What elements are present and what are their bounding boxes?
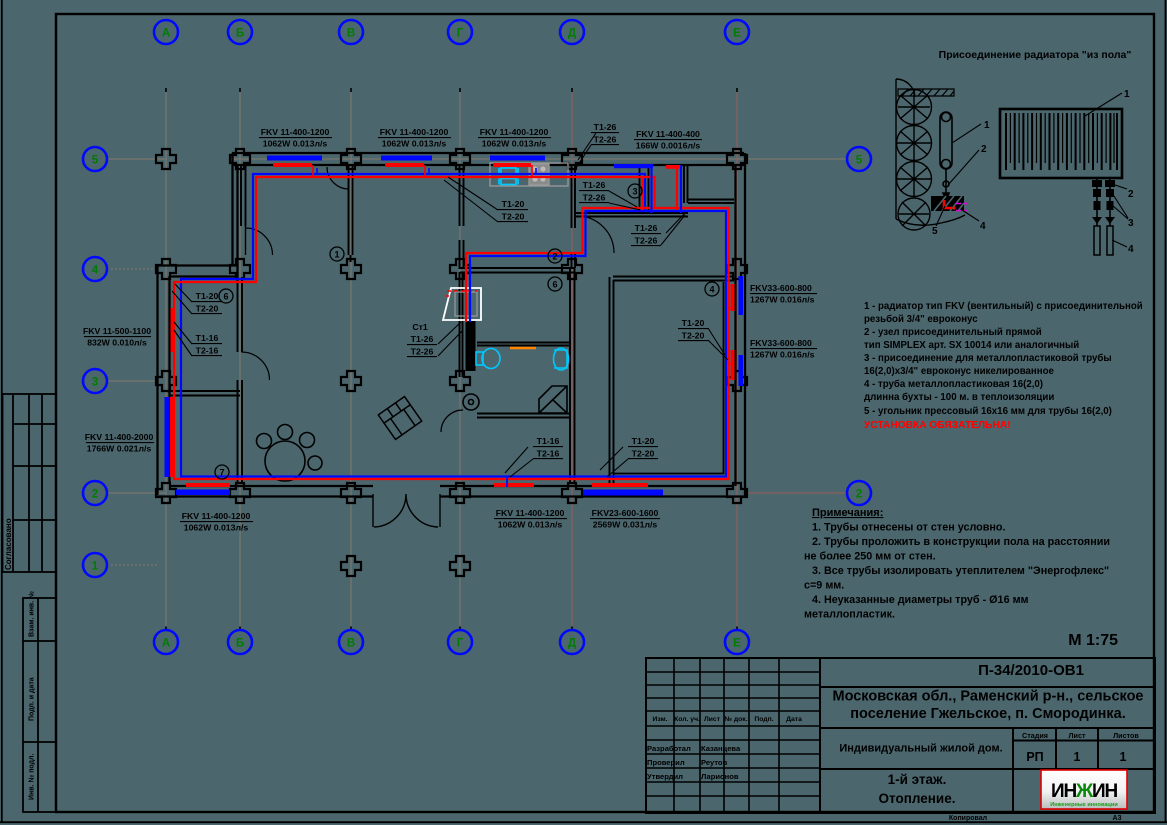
svg-text:5: 5: [932, 226, 938, 237]
radiator R11 stub: [728, 363, 734, 365]
svg-text:А: А: [162, 638, 170, 650]
radiator R5 left red: [171, 308, 176, 352]
axis circle 2 right: [847, 481, 871, 505]
wall bathroom right: [570, 268, 575, 484]
radiator R3 stubs: [531, 165, 533, 176]
wall bathroom top: [460, 268, 575, 273]
label FKV bottom2: [496, 508, 565, 530]
svg-text:Ларионов: Ларионов: [701, 772, 739, 781]
svg-text:Т1-26: Т1-26: [635, 223, 658, 233]
axis circle E bottom: [725, 630, 749, 654]
door arc hall kitchen: [577, 216, 614, 253]
radiator R10 right blue: [739, 276, 744, 315]
radiator R2 top red: [385, 163, 424, 167]
svg-text:1. Трубы отнесены от стен усло: 1. Трубы отнесены от стен условно.: [812, 522, 1006, 534]
label FKV top4: [636, 129, 701, 151]
detail leader 2 right: [1112, 184, 1127, 189]
svg-text:Лист: Лист: [704, 716, 721, 723]
radiator R7 bottom blue: [176, 490, 230, 496]
title block left grid: [646, 658, 820, 813]
svg-text:Отопление.: Отопление.: [879, 791, 956, 806]
svg-text:не более 250 мм от стен.: не более 250 мм от стен.: [804, 551, 936, 563]
main pipe loop red: [174, 177, 729, 479]
door arc lower left room: [242, 352, 270, 380]
logo box: [1041, 770, 1127, 809]
detail radiator fins: [1006, 113, 1117, 170]
svg-text:FKV 11-400-1200: FKV 11-400-1200: [496, 508, 565, 518]
svg-text:1: 1: [334, 250, 339, 260]
detail leader 1 right: [1085, 93, 1122, 116]
svg-text:Т1-26: Т1-26: [594, 122, 617, 132]
axis circle 2 left: [83, 481, 107, 505]
kitchen sink cyan: [499, 168, 518, 185]
svg-text:поселение Гжельское, п. Смород: поселение Гжельское, п. Смородинка.: [850, 706, 1125, 722]
svg-text:Т1-20: Т1-20: [502, 199, 525, 209]
wall bottom inner line: [169, 485, 734, 487]
title block signature rows: [647, 744, 741, 781]
wall right outer line: [744, 153, 746, 496]
axis circle D top: [560, 20, 584, 44]
svg-text:Т2-26: Т2-26: [583, 193, 606, 203]
radiator R6 left blue: [165, 397, 170, 477]
svg-text:5 - угольник прессовый 16х16 м: 5 - угольник прессовый 16х16 мм для труб…: [864, 406, 1112, 417]
svg-text:1: 1: [1120, 750, 1127, 764]
axis circle E top: [725, 20, 749, 44]
svg-text:3: 3: [92, 377, 98, 389]
svg-text:№ док.: № док.: [724, 716, 747, 723]
svg-text:1: 1: [1124, 89, 1130, 100]
svg-text:Т2-20: Т2-20: [502, 212, 525, 222]
svg-text:832W 0.010л/s: 832W 0.010л/s: [87, 338, 147, 348]
grid axis lines reddish: [572, 90, 846, 630]
detail valves: [1092, 180, 1115, 224]
svg-text:Московская обл., Раменский р-н: Московская обл., Раменский р-н., сельско…: [832, 689, 1143, 705]
svg-text:ИНЖИН: ИНЖИН: [1051, 781, 1117, 802]
label FKV bottom1: [182, 511, 251, 533]
wall pantry bottom: [688, 200, 734, 204]
radiator R6 left red: [170, 397, 175, 477]
circled 2: [548, 249, 562, 263]
svg-text:Е: Е: [733, 638, 741, 650]
furniture armchair: [378, 397, 421, 440]
leader T top kitchen: [576, 133, 596, 168]
svg-text:Копировал: Копировал: [949, 815, 987, 822]
svg-text:5: 5: [856, 155, 863, 167]
axis circle 5 right: [847, 147, 871, 171]
svg-text:А: А: [162, 28, 170, 40]
label T closet: [635, 223, 658, 246]
label FKV left1: [83, 326, 151, 348]
label T top kitchen: [594, 122, 617, 145]
detail leader 4 right: [1112, 240, 1127, 247]
leader T leftroom1: [172, 284, 192, 314]
svg-text:1062W 0.013л/s: 1062W 0.013л/s: [184, 523, 249, 533]
riser pair kitchen red: [676, 165, 678, 210]
svg-text:FKV23-600-1600: FKV23-600-1600: [592, 508, 659, 518]
detail floor block hatched: [931, 196, 964, 211]
title stage values: [1026, 750, 1126, 764]
svg-text:П-34/2010-ОВ1: П-34/2010-ОВ1: [978, 662, 1084, 679]
radiator R8 stub: [506, 477, 508, 487]
label FKV right1: [750, 283, 815, 305]
svg-text:Т1-26: Т1-26: [411, 334, 434, 344]
detail leader 2 left: [948, 150, 979, 185]
svg-text:1 - радиатор тип FKV (вентильн: 1 - радиатор тип FKV (вентильный) с прис…: [864, 301, 1143, 312]
circled 3: [628, 184, 642, 198]
svg-text:В: В: [347, 638, 355, 650]
title block right lines: [820, 687, 1155, 813]
sidebar upper table: [3, 394, 57, 572]
svg-text:FKV33-600-800: FKV33-600-800: [750, 283, 812, 293]
label T leftroom1: [196, 291, 219, 314]
leader T right: [708, 328, 728, 360]
door leaf left bedroom: [245, 226, 247, 255]
svg-text:Т1-20: Т1-20: [196, 291, 219, 301]
door arc left bedroom: [246, 228, 273, 255]
svg-text:Дата: Дата: [786, 716, 802, 723]
svg-text:1267W 0.016л/s: 1267W 0.016л/s: [750, 350, 815, 360]
radiator R2 stubs: [424, 165, 426, 176]
label FKV top3: [480, 127, 549, 149]
svg-text:Ст1: Ст1: [412, 322, 428, 332]
svg-text:Изм.: Изм.: [652, 716, 667, 723]
radiator R9 bottom red: [592, 483, 648, 487]
svg-text:FKV 11-400-2000: FKV 11-400-2000: [85, 432, 154, 442]
riser closet blue: [650, 168, 652, 213]
radiator R7 bottom red: [186, 483, 230, 487]
svg-text:РП: РП: [1026, 750, 1043, 764]
svg-text:2: 2: [552, 252, 557, 262]
bathroom toilet: [476, 349, 500, 369]
detail radiator section: [940, 112, 952, 201]
svg-text:1062W 0.013л/s: 1062W 0.013л/s: [263, 139, 328, 149]
wall bottom outer line: [157, 495, 745, 497]
svg-text:1062W 0.013л/s: 1062W 0.013л/s: [498, 520, 563, 530]
wall step horizontal: [157, 266, 237, 277]
svg-text:2569W 0.031л/s: 2569W 0.031л/s: [593, 520, 658, 530]
svg-text:3: 3: [632, 187, 637, 197]
svg-text:Кол. уч.: Кол. уч.: [674, 716, 700, 723]
svg-text:Стадия: Стадия: [1022, 731, 1048, 740]
circled 4: [705, 282, 719, 296]
detail magenta dashes: [956, 204, 968, 211]
svg-text:Е: Е: [733, 28, 741, 40]
bathroom towel rail orange: [510, 347, 536, 349]
wall top inner line: [232, 164, 744, 166]
svg-text:16(2,0)х3/4" евроконус никелир: 16(2,0)х3/4" евроконус никелированное: [864, 366, 1055, 377]
door arc room1: [327, 167, 349, 189]
svg-text:Д: Д: [568, 638, 576, 650]
svg-text:FKV 11-400-1200: FKV 11-400-1200: [182, 511, 251, 521]
axis circle 5 left: [83, 147, 107, 171]
leader T leftroom2: [174, 322, 192, 356]
svg-text:Т2-16: Т2-16: [196, 346, 219, 356]
svg-text:Т1-16: Т1-16: [196, 333, 219, 343]
riser closet red: [641, 177, 643, 210]
label FKV top1: [261, 127, 330, 149]
svg-text:Т2-26: Т2-26: [635, 236, 658, 246]
svg-text:1: 1: [92, 561, 99, 573]
leader T hall2: [505, 447, 533, 477]
wall left rooms divider: [169, 391, 240, 396]
label T bedroom: [632, 436, 655, 459]
label T hall: [502, 199, 525, 222]
svg-text:6: 6: [223, 292, 228, 302]
svg-text:FKV 11-500-1100: FKV 11-500-1100: [83, 326, 151, 336]
column crosses: [156, 149, 747, 576]
radiator R8 bottom red: [494, 483, 534, 487]
detail leader 5: [936, 206, 945, 226]
svg-text:1-й этаж.: 1-й этаж.: [888, 772, 947, 787]
detail leader 4 left: [962, 210, 979, 221]
furniture round table with chairs: [257, 425, 323, 482]
radiator R1 stubs: [312, 165, 314, 176]
axis circle A top: [154, 20, 178, 44]
svg-text:Б: Б: [236, 28, 244, 40]
wall left inner line: [168, 276, 170, 484]
detail pipes below: [1094, 178, 1113, 255]
wall bedroom left: [610, 277, 614, 484]
notes text: [804, 522, 1110, 621]
svg-text:4: 4: [980, 221, 986, 232]
svg-text:Т2-16: Т2-16: [537, 449, 560, 459]
wall bathroom left thick: [466, 321, 476, 371]
svg-text:Д: Д: [568, 28, 576, 40]
label FKV right2: [750, 338, 815, 360]
svg-text:А3: А3: [1113, 815, 1122, 822]
label T hall2: [537, 436, 560, 459]
svg-text:FKV 11-400-1200: FKV 11-400-1200: [480, 127, 549, 137]
svg-text:1: 1: [1074, 750, 1081, 764]
svg-text:Т2-26: Т2-26: [594, 135, 617, 145]
wall bedroom top: [613, 277, 734, 281]
stove Ct1 white box: [443, 288, 481, 320]
svg-text:FKV 11-400-400: FKV 11-400-400: [636, 129, 700, 139]
svg-text:металлопластик.: металлопластик.: [804, 609, 895, 621]
svg-text:1062W 0.013л/s: 1062W 0.013л/s: [482, 139, 547, 149]
wall hall left: [460, 166, 464, 377]
svg-text:2: 2: [92, 489, 98, 501]
svg-text:FKV33-600-800: FKV33-600-800: [750, 338, 812, 348]
stove Ct1 red dashes: [446, 291, 477, 296]
svg-text:4: 4: [709, 285, 714, 295]
detail radiator front: [1000, 109, 1122, 178]
label T right: [682, 318, 705, 341]
washing machine: [463, 394, 479, 410]
svg-text:5: 5: [92, 155, 99, 167]
radiator R1 top red: [273, 163, 312, 167]
svg-text:Присоединение радиатора "из по: Присоединение радиатора "из пола": [939, 49, 1132, 61]
title block header labels: [652, 716, 802, 723]
wall kitchen left: [572, 166, 576, 268]
wall bathroom shelf: [477, 343, 571, 346]
svg-text:с=9 мм.: с=9 мм.: [804, 580, 844, 592]
svg-text:М 1:75: М 1:75: [1068, 632, 1118, 649]
door arc bathroom: [441, 410, 463, 432]
sidebar lower table: [23, 598, 56, 812]
svg-text:Подп.: Подп.: [754, 716, 773, 723]
radiator R4 blue: [614, 164, 653, 168]
radiator R11 right blue: [739, 355, 744, 386]
svg-text:4: 4: [1128, 244, 1134, 255]
radiator R1 top blue: [267, 156, 322, 161]
leader Ct1: [438, 322, 463, 356]
detail top beam hatched: [898, 89, 954, 96]
axis circle 1 left: [83, 553, 107, 577]
label FKV top2: [380, 127, 449, 149]
detail log wall section: [896, 79, 932, 230]
circled 1: [330, 247, 344, 261]
svg-text:1267W 0.016л/s: 1267W 0.016л/s: [750, 295, 815, 305]
svg-text:Примечания:: Примечания:: [812, 507, 883, 519]
svg-text:166W 0.0016л/s: 166W 0.0016л/s: [636, 141, 701, 151]
axis circle D bottom: [560, 630, 584, 654]
svg-text:Т1-20: Т1-20: [632, 436, 655, 446]
label FKV left2: [85, 432, 154, 454]
svg-text:Согласовано: Согласовано: [4, 518, 13, 570]
svg-text:Т2-20: Т2-20: [632, 449, 655, 459]
svg-text:Т1-26: Т1-26: [583, 180, 606, 190]
radiator R9 bottom blue: [583, 490, 663, 496]
radiator R3 top blue: [490, 156, 545, 161]
kitchen counter: [490, 163, 568, 186]
axis circle G bottom: [448, 630, 472, 654]
svg-text:Инженерные инновации: Инженерные инновации: [1050, 802, 1118, 808]
wall right inner line: [734, 166, 736, 486]
radiator R2 top blue: [381, 156, 432, 161]
label T kitchen mid: [583, 180, 606, 203]
leader T bedroom: [600, 447, 628, 477]
svg-text:2: 2: [1128, 189, 1134, 200]
svg-text:7: 7: [219, 468, 224, 478]
radiator R3 top red: [493, 163, 531, 167]
exterior walls: [157, 153, 745, 497]
axis circle 4 left: [83, 257, 107, 281]
wall bathroom bottom: [477, 414, 570, 418]
svg-text:Инв. № подл.: Инв. № подл.: [28, 753, 36, 800]
svg-text:Казанцева: Казанцева: [701, 744, 741, 753]
svg-text:2: 2: [981, 144, 987, 155]
axis circle B bottom: [228, 630, 252, 654]
svg-text:Б: Б: [236, 638, 244, 650]
svg-text:FKV 11-400-1200: FKV 11-400-1200: [261, 127, 330, 137]
label FKV bottom3: [592, 508, 659, 530]
svg-text:Т2-20: Т2-20: [196, 304, 219, 314]
svg-text:Т1-20: Т1-20: [682, 318, 705, 328]
svg-text:Разработал: Разработал: [647, 744, 691, 753]
wall top outer line: [232, 152, 744, 154]
svg-text:1: 1: [984, 120, 990, 131]
detail ground curve: [896, 215, 965, 225]
wall step vertical: [233, 153, 238, 277]
title stage headers: [1022, 731, 1139, 740]
radiator R4 red: [666, 165, 680, 169]
label T leftroom2: [196, 333, 219, 356]
svg-text:2: 2: [856, 489, 862, 501]
svg-text:2. Трубы проложить в конструкц: 2. Трубы проложить в конструкции пола на…: [812, 536, 1110, 548]
svg-text:Проверил: Проверил: [647, 758, 685, 767]
bathroom sink: [554, 348, 569, 370]
svg-text:2 - узел присоединительный пря: 2 - узел присоединительный прямой: [864, 327, 1042, 338]
svg-text:4 - труба металлопластиковая 1: 4 - труба металлопластиковая 16(2,0): [864, 379, 1043, 390]
svg-text:Т2-26: Т2-26: [411, 347, 434, 357]
grid line end ticks: [166, 88, 737, 630]
legend text: [864, 301, 1143, 417]
leader T kitchen mid: [609, 191, 640, 210]
svg-text:3. Все трубы изолировать утепл: 3. Все трубы изолировать утеплителем "Эн…: [812, 565, 1109, 577]
detail leader 1 left: [952, 124, 981, 143]
svg-text:1062W 0.013л/s: 1062W 0.013л/s: [382, 139, 447, 149]
radiator R11 right red: [731, 350, 735, 380]
title block outline: [646, 658, 1155, 813]
svg-text:Индивидуальный жилой дом.: Индивидуальный жилой дом.: [839, 743, 1002, 755]
wall pantry left: [684, 166, 688, 203]
svg-text:1766W 0.021л/s: 1766W 0.021л/s: [87, 444, 152, 454]
main pipe loop blue: [181, 174, 726, 477]
svg-text:Взам. инв. №: Взам. инв. №: [28, 591, 36, 637]
svg-text:Подп. и дата: Подп. и дата: [29, 677, 36, 721]
wall left outer line: [156, 265, 158, 495]
svg-text:Реутов: Реутов: [701, 758, 728, 767]
svg-text:Г: Г: [457, 28, 464, 40]
detail red elbow: [944, 200, 952, 208]
axis circle V bottom: [339, 630, 363, 654]
axis circle 3 left: [83, 369, 107, 393]
detail leader 3 right: [1112, 193, 1128, 219]
axis circle V top: [339, 20, 363, 44]
svg-text:3: 3: [1128, 218, 1134, 229]
svg-text:В: В: [347, 28, 355, 40]
porch door arcs: [373, 494, 440, 527]
svg-text:тип SIMPLEX арт. SX 10014 или: тип SIMPLEX арт. SX 10014 или аналогичны…: [864, 340, 1079, 351]
svg-text:3 - присоединение для металлоп: 3 - присоединение для металлопластиковой…: [864, 353, 1112, 364]
svg-text:Т2-20: Т2-20: [682, 331, 705, 341]
svg-text:FKV 11-400-1200: FKV 11-400-1200: [380, 127, 449, 137]
circled 6a: [219, 289, 233, 303]
circled 6b: [548, 277, 562, 291]
shower corner: [539, 386, 567, 413]
wall room1 right: [349, 166, 353, 262]
svg-text:6: 6: [552, 280, 557, 290]
svg-text:Г: Г: [457, 638, 464, 650]
interior walls: [169, 166, 734, 484]
wall kitchen bottom: [575, 213, 688, 217]
radiator R10 stub: [728, 307, 734, 309]
circled 7: [215, 465, 229, 479]
svg-text:4. Неуказанные диаметры труб -: 4. Неуказанные диаметры труб - Ø16 мм: [812, 594, 1029, 606]
grid axis lines: [108, 90, 846, 630]
label Ct1: [411, 322, 434, 357]
svg-text:резьбой 3/4" евроконус: резьбой 3/4" евроконус: [864, 314, 978, 325]
axis circle A bottom: [154, 630, 178, 654]
svg-text:Т1-16: Т1-16: [537, 436, 560, 446]
wall left rooms vertical: [238, 277, 243, 483]
axis circle B top: [228, 20, 252, 44]
stove detail: [532, 166, 545, 181]
svg-text:УСТАНОВКА ОБЯЗАТЕЛЬНА!: УСТАНОВКА ОБЯЗАТЕЛЬНА!: [864, 420, 1011, 431]
svg-text:Утвердил: Утвердил: [647, 772, 683, 781]
wall kitchen closet: [640, 166, 649, 213]
svg-text:Лист: Лист: [1069, 731, 1086, 740]
leader T hall: [444, 177, 498, 222]
svg-text:Листов: Листов: [1113, 731, 1139, 740]
bedroom closet line: [614, 282, 724, 474]
leader T closet: [661, 212, 686, 245]
svg-text:длинна бухты - 100 м. в теплои: длинна бухты - 100 м. в теплоизоляции: [864, 392, 1054, 403]
radiator R10 right red: [731, 284, 735, 311]
svg-text:4: 4: [92, 265, 99, 277]
riser pair kitchen blue: [680, 165, 682, 213]
